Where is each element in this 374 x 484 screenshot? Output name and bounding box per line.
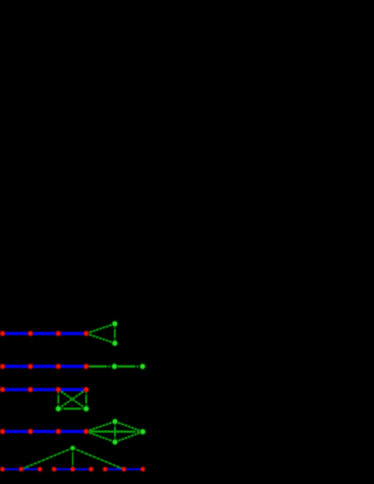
graph row 5 : three blue P3 paths joined by green apex vertex (0, 445, 146, 472)
wire blue edge r5 b1-b2 (54, 468, 73, 470)
node r3 b1 (55, 405, 62, 412)
node r5 a1 (0, 466, 5, 472)
wire green edge r3 v4-b1 diagonal (58, 390, 86, 409)
node r4 v2 (27, 428, 33, 434)
wire green edge r4 v4-right horizontal (86, 430, 143, 432)
node r4 bottom (112, 439, 119, 446)
node r1 v4 (83, 330, 89, 336)
wire blue edge r4 v2-v3 (30, 430, 58, 433)
node r5 a2 (18, 466, 24, 472)
wire green edge r1 v4-t1 (86, 324, 115, 334)
wire green edge r3 v3-b2 diagonal (58, 390, 86, 409)
wire green edge r3 b1-b2 bottom (58, 408, 86, 410)
wire blue edge r1 v2-v3 (30, 332, 58, 335)
wire blue edge r4 v1-v2 (3, 430, 31, 433)
wire blue edge r3 v1-v2 (3, 388, 31, 391)
node r1 t1 (112, 321, 119, 328)
wire green edge r4 bottom-right (115, 432, 143, 442)
node r5 c3 (140, 466, 146, 472)
wire blue edge r4 v3-v4 (58, 430, 86, 433)
wire blue edge r3 v2-v3 (30, 388, 58, 391)
node r2 v4 (83, 363, 89, 369)
wire blue edge r5 a1-a2 (2, 468, 21, 470)
node r1 v1 (0, 330, 6, 336)
node r1 v3 (55, 330, 61, 336)
graph row 1 : blue path P4 with green triangle (0, 321, 118, 347)
wire green edge r5 apex-a2 (21, 448, 72, 469)
node r1 v2 (27, 330, 33, 336)
graph row 3 : blue path P4 with green K4 box (0, 386, 89, 412)
node r4 right (140, 428, 147, 435)
node r4 v1 (0, 428, 6, 434)
node r2 v1 (0, 363, 6, 369)
wire green edge r3 v4-b2 vertical (85, 390, 87, 409)
wire green edge r1 v4-t2 (86, 334, 115, 344)
wire green edge r5 apex-c2 (73, 448, 124, 469)
node r3 v2 (27, 386, 33, 392)
node r4 top (112, 418, 119, 425)
node r3 v4 (83, 386, 89, 392)
wire green edge r4 v4-bottom (86, 432, 115, 443)
wire blue edge r2 v2-v3 (30, 365, 58, 368)
wire green edge r4 top-bottom vertical (114, 422, 116, 443)
wire blue edge r2 v1-v2 (3, 365, 31, 368)
node r4 v3 (55, 428, 61, 434)
wire green edge r4 v4-top (86, 422, 115, 432)
wire blue edge r5 b2-b3 (73, 468, 91, 470)
node r5 c1 (102, 466, 108, 472)
wire blue edge r1 v1-v2 (3, 332, 31, 335)
wire green edge r5 apex-b2 (72, 448, 74, 469)
node r5 b3 (88, 466, 94, 472)
wire blue edge r5 a2-a3 (21, 468, 40, 470)
node r2 g2 (139, 363, 146, 370)
node r3 v3 (55, 386, 61, 392)
wire blue edge r1 v3-v4 (58, 332, 86, 335)
wire green edge r1 t1-t2 (114, 324, 116, 343)
node r2 g1 (111, 363, 118, 370)
node r5 a3 (37, 466, 43, 472)
node r3 v1 (0, 386, 6, 392)
wire green edge r3 v3-b1 vertical (57, 390, 59, 409)
node r4 v4 (83, 428, 89, 434)
wire green edge r2 g1-g2 (114, 365, 142, 367)
wire blue edge r2 v3-v4 (58, 365, 86, 368)
node r1 t2 (112, 340, 119, 347)
wire blue edge r5 c2-c3 (124, 468, 143, 470)
wire blue edge r5 c1-c2 (105, 468, 124, 470)
graph row 2 : blue path P4 extended by green path (0, 363, 146, 370)
wire green edge r4 top-right (115, 422, 143, 432)
node r5 apex (70, 445, 76, 451)
node r3 b2 (83, 405, 90, 412)
node r5 b1 (51, 466, 57, 472)
node r5 b2 (70, 466, 76, 472)
graph row 4 : blue path P4 with green K4 diamond (0, 418, 146, 445)
node r5 c2 (121, 466, 127, 472)
node r2 v2 (27, 363, 33, 369)
wire blue edge r3 v3-v4 (58, 388, 86, 391)
wire green edge r2 v4-g1 (86, 365, 114, 367)
node r2 v3 (55, 363, 61, 369)
